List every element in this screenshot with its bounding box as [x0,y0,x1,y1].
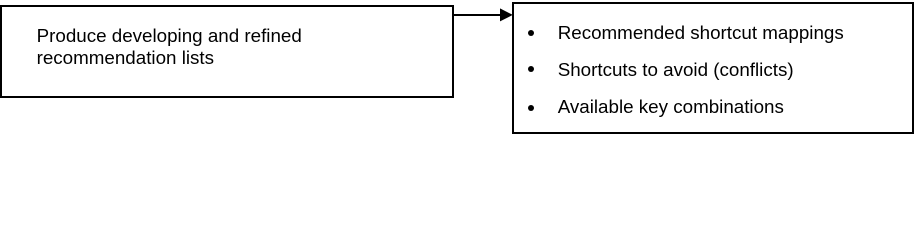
bullet dot 2 [528,66,534,72]
arrowhead [500,8,513,21]
arrow connector [450,0,516,30]
bullet item 2 [558,60,794,80]
left process box [0,5,454,98]
bullet dot 3 [528,105,534,111]
bullet item 3 [558,97,784,117]
bullet item 1 [558,23,844,43]
arrow shaft [452,14,501,16]
right output box [512,2,914,134]
bullet dot 1 [528,30,534,36]
left box label [37,25,302,68]
